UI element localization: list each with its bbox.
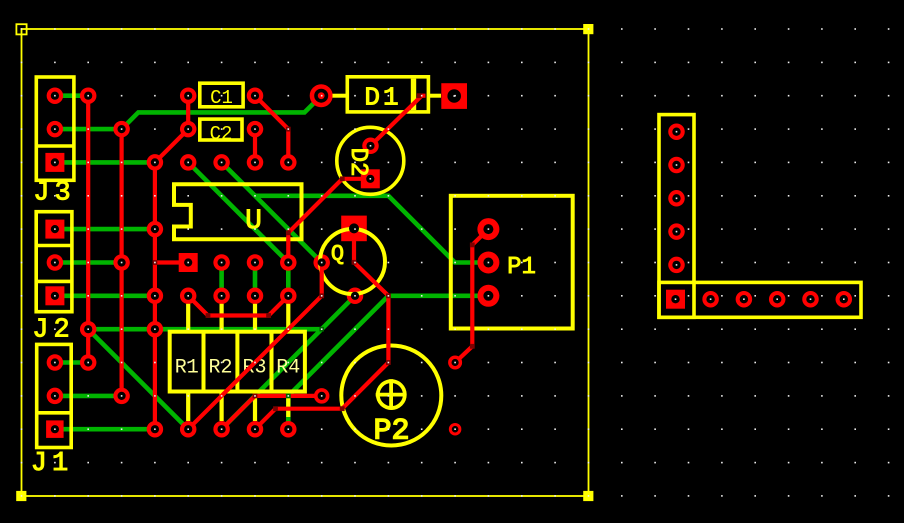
IC U outline xyxy=(174,184,302,239)
via (3,7) xyxy=(113,254,130,271)
Q base pad xyxy=(313,254,330,271)
pad C2.1 xyxy=(180,121,197,138)
capacitor C1 outline xyxy=(200,83,243,107)
pad D2.1 xyxy=(362,138,379,155)
wire bottom via (11,8) to pad R4.2 xyxy=(288,296,388,429)
pad U (6,7) xyxy=(213,254,230,271)
pad U (7,8) xyxy=(247,288,264,305)
pad drill holes xyxy=(51,89,848,434)
pad J1.3 (square) xyxy=(46,420,64,438)
via (4,8) xyxy=(147,288,164,305)
via (2,2) xyxy=(80,87,97,104)
wire bottom node (7,5) to P1.2 xyxy=(255,196,488,263)
connector J2 outline xyxy=(36,212,72,312)
pad L-connector pin 3 xyxy=(668,190,685,207)
pad P1.3 xyxy=(477,285,499,307)
label R4 xyxy=(276,357,300,380)
svg-text:D2: D2 xyxy=(344,148,371,177)
pad L-connector pin 7 xyxy=(702,291,719,308)
wire top pad (5,8) to pad (8,8) xyxy=(188,296,288,316)
pad J2.2 xyxy=(47,254,64,271)
wire bottom pad (6,4) to Q base pad xyxy=(222,162,322,262)
pad C1.2 xyxy=(247,87,264,104)
potentiometer P2 outline xyxy=(341,346,441,446)
via (4,12) xyxy=(147,421,164,438)
svg-text:R4: R4 xyxy=(276,357,300,380)
wire bottom pad (5,4) to pad (8,7) xyxy=(188,162,288,262)
pad L-connector pin 8 xyxy=(736,291,753,308)
pad Q emitter (square) xyxy=(341,216,367,242)
svg-text:P2: P2 xyxy=(373,415,409,449)
wire bottom pad (8,7) to pad (8,8) xyxy=(286,263,291,296)
diode D2 outline xyxy=(337,127,404,194)
pad U (8,8) xyxy=(280,288,297,305)
wire top junction (4,7) to pad U pin1 xyxy=(155,260,188,264)
connector J1 outline xyxy=(37,344,71,447)
pad C2.2 xyxy=(247,121,264,138)
pad (7,4) xyxy=(247,154,264,171)
pad L-connector pin 1 xyxy=(668,123,685,140)
pad C1.1 xyxy=(180,87,197,104)
svg-text:C2: C2 xyxy=(210,123,233,145)
lead R4 top xyxy=(286,304,290,332)
label J1 xyxy=(31,449,73,479)
lead R4 bottom xyxy=(286,392,290,418)
wire bottom pad (7,7) to pad (7,8) xyxy=(253,263,258,296)
wire bottom J2.3 to via (4,8) xyxy=(55,293,155,298)
svg-text:J3: J3 xyxy=(33,179,75,209)
via (4,6) xyxy=(147,221,164,238)
diode D1 outline xyxy=(333,77,442,112)
label R1 xyxy=(175,357,199,380)
wire top pad C2.1 to via (4,4) xyxy=(155,129,188,162)
pad J2.3 (square) xyxy=(45,286,64,305)
wire bottom J2.1 to via (4,6) xyxy=(55,227,155,232)
pad P1.2 xyxy=(477,252,499,274)
connector J3 outline xyxy=(36,77,74,180)
pad J3.2 xyxy=(47,121,64,138)
svg-text:J2: J2 xyxy=(32,316,74,346)
pad P2.3 xyxy=(449,423,462,436)
pad D2.2 (square) xyxy=(361,169,380,188)
label R3 xyxy=(242,357,266,380)
svg-text:P1: P1 xyxy=(507,254,536,281)
svg-text:J1: J1 xyxy=(31,449,73,479)
svg-text:R2: R2 xyxy=(208,357,232,380)
pad D1 anode center xyxy=(318,92,325,99)
wire bottom via (2,9) to node (9,9) xyxy=(88,327,322,332)
pad U (6,8) xyxy=(213,288,230,305)
wire top pad C1.1 to pad C2.1 xyxy=(186,96,190,129)
pad J2.1 (square) xyxy=(45,220,64,239)
wire top pad C2.2 to pad (7,4) xyxy=(253,129,257,162)
lead R3 top xyxy=(253,304,257,332)
svg-text:R1: R1 xyxy=(175,357,199,380)
wire top via (4,4) to via (4,12) xyxy=(153,162,157,429)
label J3 xyxy=(33,179,75,209)
pad P2.1 xyxy=(314,388,330,404)
pad R3.2 xyxy=(247,421,264,438)
pad L-connector pin 11 xyxy=(836,291,853,308)
pad J3.1 xyxy=(47,87,64,104)
wire top via (3,3) to via (3,11) xyxy=(119,129,123,396)
svg-text:Q: Q xyxy=(331,242,344,267)
pad D1 anode (round, large) xyxy=(310,84,333,107)
pad P2.2 xyxy=(448,356,462,370)
lead R1 top xyxy=(186,304,190,332)
pad L-connector pin 6 (square) xyxy=(666,290,685,309)
board outline xyxy=(16,24,593,501)
junction (9,9) xyxy=(319,327,324,332)
pad L-connector pin 2 xyxy=(668,157,685,174)
svg-text:C1: C1 xyxy=(210,87,233,109)
pad R4.2 xyxy=(280,421,297,438)
wire bottom J1.1 to via (2,10) xyxy=(55,360,88,365)
svg-text:U: U xyxy=(245,206,262,237)
wire top via (2,2) to via (2,10) xyxy=(86,96,90,363)
pad U (8,7) xyxy=(280,254,297,271)
resistor block R1-R4 outline xyxy=(170,332,305,392)
wire bottom J1.3 to via (4,12) xyxy=(55,427,155,432)
via (2,9) xyxy=(80,321,97,338)
pad D1 cathode (square) xyxy=(441,83,467,109)
capacitor C2 outline xyxy=(200,119,242,140)
label C1 xyxy=(210,87,233,109)
wire bottom J3.2 to via (3,3) xyxy=(55,127,122,132)
label U xyxy=(245,206,262,237)
pad L-connector pin 4 xyxy=(668,223,685,240)
crossing marker (8,11) xyxy=(286,394,291,399)
potentiometer P2 rotor mark xyxy=(376,379,407,410)
wire top pad P1.1 to pad P2.2 xyxy=(455,229,488,362)
label C2 xyxy=(210,123,233,145)
via (3,3) xyxy=(113,121,130,138)
wire bottom via (2,9) to pad R1.2 xyxy=(88,329,188,429)
pad (5,4) xyxy=(180,154,197,171)
pad U pin1 (square) xyxy=(179,253,198,272)
via (4,4) xyxy=(147,154,164,171)
wire top Q base to pad R1.2 xyxy=(188,263,322,430)
connector P1 outline xyxy=(451,196,573,329)
label J2 xyxy=(32,316,74,346)
pad P1.1 xyxy=(477,218,499,240)
pad U (5,8) xyxy=(180,288,197,305)
pad Q collector (10,8) xyxy=(347,288,364,305)
wire bottom via (11,8) to P1.3 xyxy=(388,293,488,298)
wire bottom J2.2 to via (3,7) xyxy=(55,260,122,265)
label R2 xyxy=(208,357,232,380)
wire bottom pad (6,7) to pad (6,8) xyxy=(219,263,224,296)
lead R3 bottom xyxy=(253,392,257,422)
pad L-connector pin 10 xyxy=(802,291,819,308)
wire top pad R2.2 to pad P2.1 xyxy=(222,396,322,429)
lead R2 top xyxy=(220,304,224,332)
pad R1.2 xyxy=(180,421,197,438)
label Q xyxy=(331,242,344,267)
pad L-connector pin 9 xyxy=(769,291,786,308)
pad J1.2 xyxy=(47,388,64,405)
transistor Q outline xyxy=(320,229,385,294)
label D1 xyxy=(364,83,401,113)
lead R2 bottom xyxy=(220,392,224,422)
svg-text:D1: D1 xyxy=(364,83,401,113)
wire top node (8,3) to pad (8,4) xyxy=(286,129,290,162)
lead R1 bottom xyxy=(186,392,190,422)
pad U (7,7) xyxy=(247,254,264,271)
wire top pad C1.2 to node (8,3) xyxy=(255,96,288,129)
pad L-connector pin 5 xyxy=(668,257,685,274)
via (3,11) xyxy=(113,388,130,405)
pad J1.1 xyxy=(47,354,64,371)
pad (8,4) xyxy=(280,154,297,171)
wire bottom via (3,3) to D1 anode pad xyxy=(122,96,322,129)
wire top pad D2.1 to pad D1 cathode xyxy=(371,96,426,146)
wire bottom J3.1 to via (2,2) xyxy=(55,93,88,98)
pad (6,4) xyxy=(213,154,230,171)
L-connector outline xyxy=(659,115,861,318)
via (2,10) xyxy=(80,354,97,371)
label P2 xyxy=(373,415,409,449)
wire top pad D2.2 to pad (8,7) xyxy=(288,179,370,263)
wire bottom J3.3 to via (4,4) xyxy=(55,160,155,165)
label D2 xyxy=(344,148,371,177)
via (4,9) xyxy=(147,321,164,338)
wire bottom J1.2 to via (3,11) xyxy=(55,394,122,399)
wire top Q emitter to pad R3.2 xyxy=(255,228,388,429)
pad J3.3 (square) xyxy=(45,153,64,172)
pad R2.2 xyxy=(213,421,230,438)
trace bend markers xyxy=(153,93,475,411)
label P1 xyxy=(507,254,536,281)
wire bottom pad R2.2 to Q emitter pad xyxy=(222,296,355,429)
